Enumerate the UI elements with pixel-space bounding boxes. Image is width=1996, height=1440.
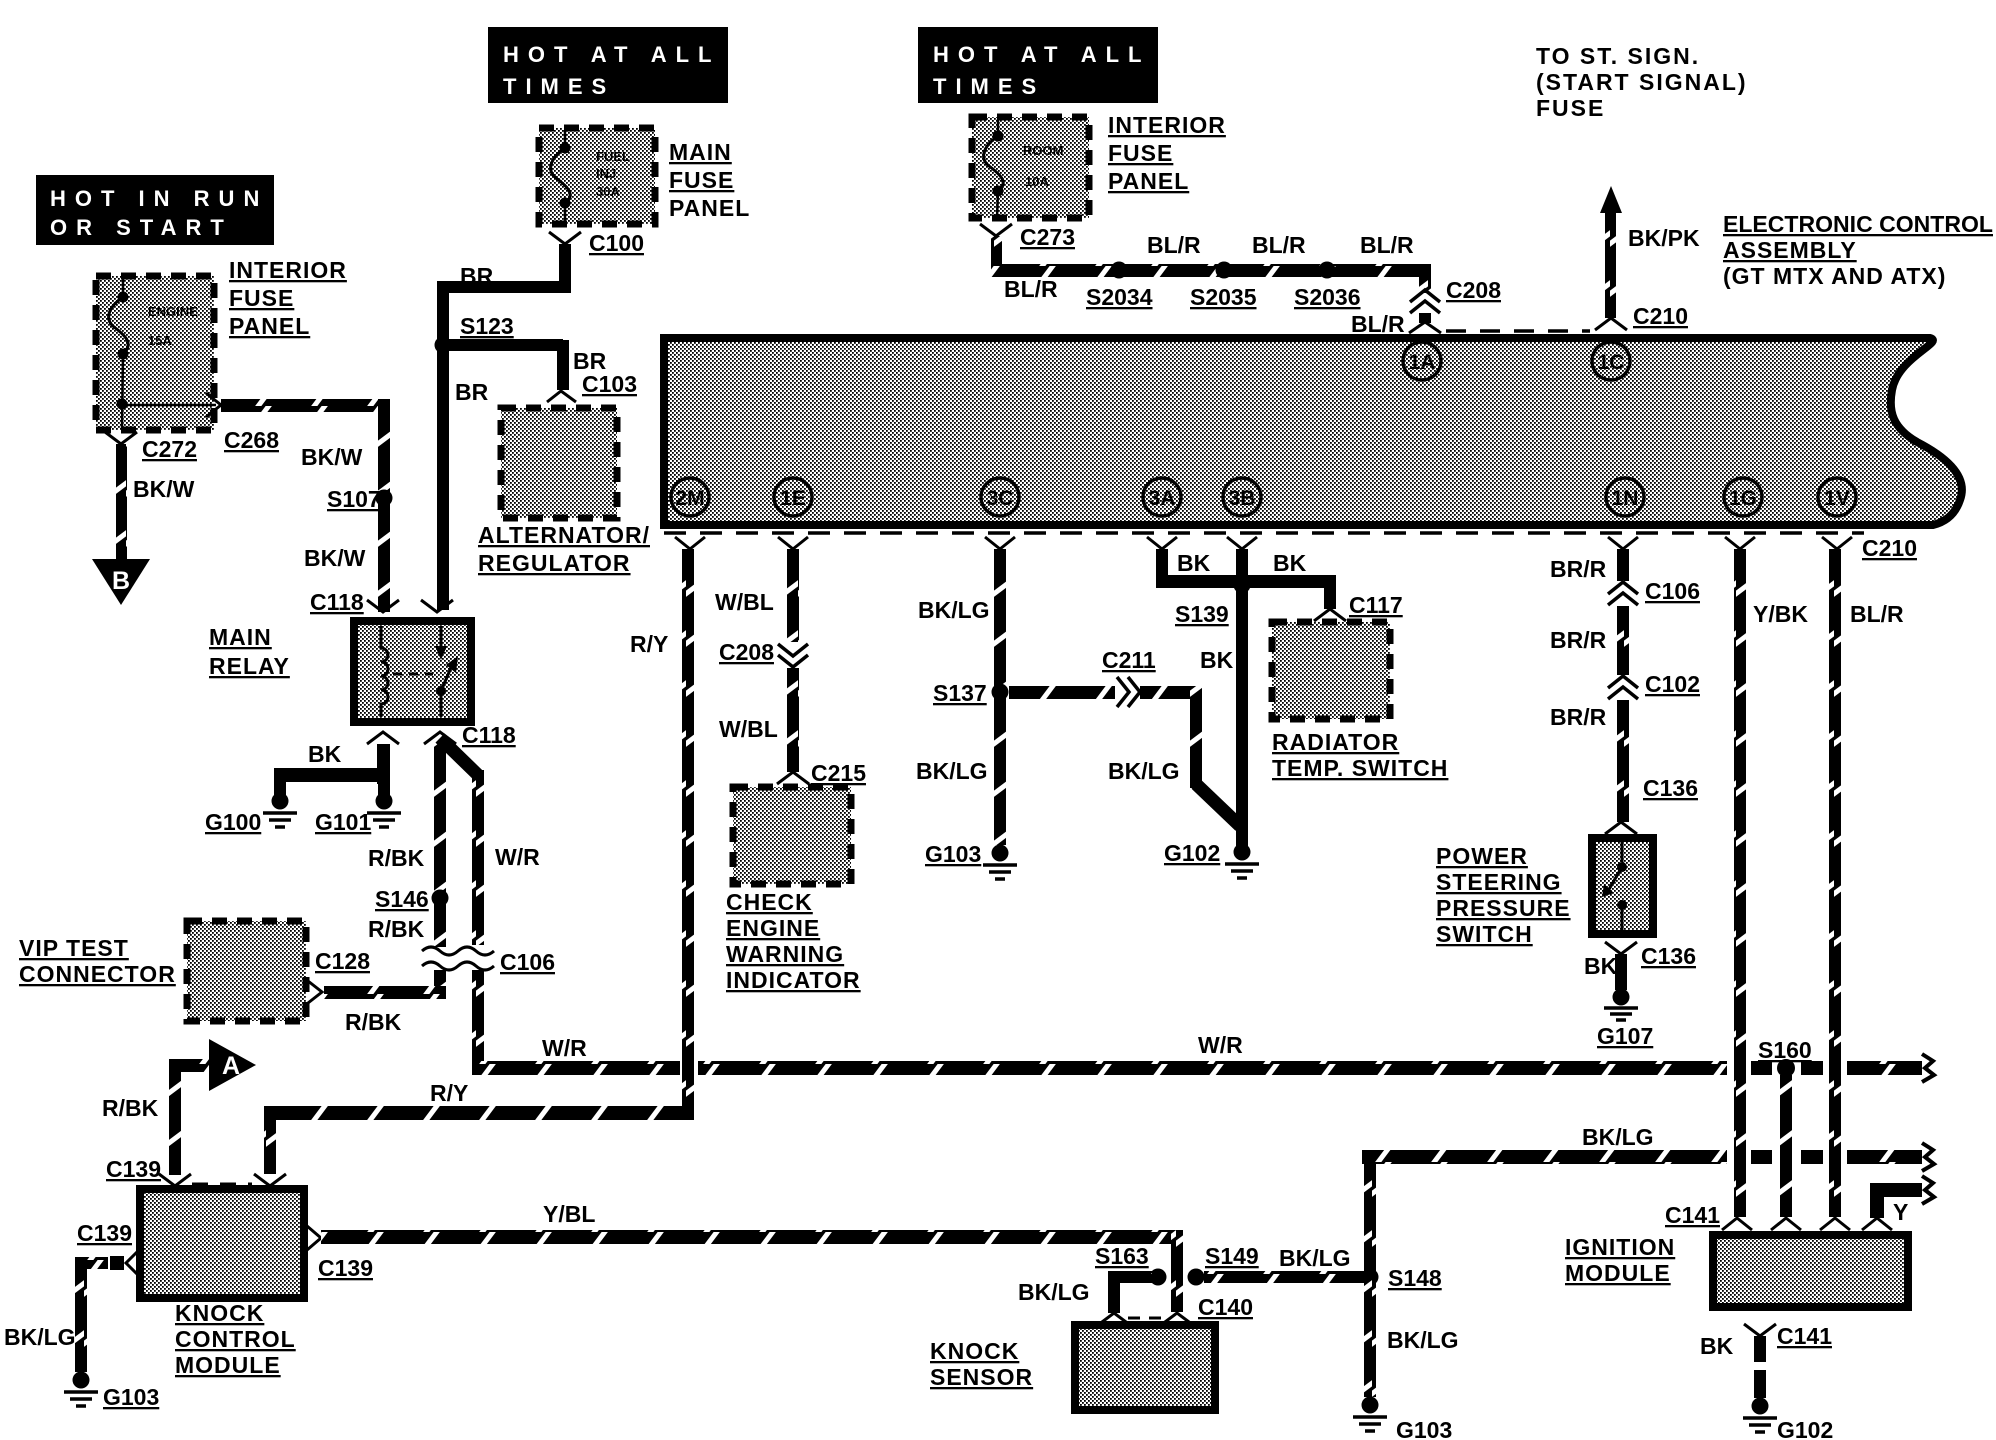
svg-text:S160: S160 bbox=[1758, 1037, 1812, 1063]
svg-text:3B: 3B bbox=[1229, 487, 1256, 510]
label POWER STEERING PRESSURE SWITCH bbox=[1436, 843, 1571, 947]
wire R/Y from 2M down bbox=[682, 549, 694, 1106]
wire BL/R corner down to C208 bbox=[1419, 264, 1431, 293]
svg-text:FUSE: FUSE bbox=[669, 167, 734, 193]
svg-text:30A: 30A bbox=[596, 184, 620, 199]
svg-text:BK: BK bbox=[1273, 550, 1307, 576]
svg-text:A: A bbox=[222, 1052, 240, 1080]
ECA pin circle 2M bbox=[671, 478, 709, 516]
svg-text:C106: C106 bbox=[500, 949, 555, 975]
label BK (ignition) bbox=[1700, 1333, 1734, 1359]
label ELECTRONIC CONTROL ASSEMBLY bbox=[1723, 211, 1993, 289]
wire W/R long horizontal bbox=[472, 1061, 1922, 1075]
svg-text:B: B bbox=[112, 567, 130, 595]
svg-text:KNOCK: KNOCK bbox=[175, 1300, 264, 1326]
label TO ST. SIGN. (START SIGNAL) FUSE bbox=[1536, 43, 1748, 121]
inline connector C208 (on W/BL) bbox=[719, 639, 808, 667]
connector V at ECA pin 1G bbox=[1725, 537, 1755, 549]
radiator temp switch dashed box bbox=[1272, 622, 1390, 719]
inline connector C106 (wavy break on both wires) bbox=[422, 947, 555, 975]
label Y bbox=[1893, 1199, 1908, 1225]
label BK (3A) bbox=[1177, 550, 1211, 576]
label BK/LG (mid left) bbox=[916, 758, 988, 784]
svg-text:MODULE: MODULE bbox=[1565, 1260, 1671, 1286]
svg-text:BL/R: BL/R bbox=[1252, 232, 1306, 258]
svg-text:C118: C118 bbox=[310, 589, 364, 615]
connector V at ECA pin 3A bbox=[1147, 537, 1177, 549]
ECA pin circle 1A bbox=[1403, 342, 1441, 380]
check engine warning indicator dashed box bbox=[733, 787, 851, 884]
svg-text:BR/R: BR/R bbox=[1550, 556, 1607, 582]
knock control module box bbox=[140, 1189, 304, 1298]
svg-text:INDICATOR: INDICATOR bbox=[726, 967, 861, 993]
label BL/R (1) bbox=[1147, 232, 1201, 258]
svg-text:W/R: W/R bbox=[542, 1035, 587, 1061]
svg-text:C215: C215 bbox=[811, 760, 866, 786]
wire BK/LG elbow to G103 (left) bbox=[75, 1257, 108, 1372]
ECA pin circle 3B bbox=[1223, 478, 1261, 516]
svg-text:ENGINE: ENGINE bbox=[726, 915, 820, 941]
ECA pin circle 1C bbox=[1592, 342, 1630, 380]
svg-text:C210: C210 bbox=[1862, 535, 1917, 561]
splice S2036 bbox=[1294, 262, 1361, 311]
svg-text:C140: C140 bbox=[1198, 1294, 1253, 1320]
svg-text:C100: C100 bbox=[589, 230, 644, 256]
svg-text:CONNECTOR: CONNECTOR bbox=[19, 961, 176, 987]
splice S107 bbox=[327, 486, 393, 512]
svg-text:INTERIOR: INTERIOR bbox=[229, 257, 347, 283]
label BR (right) bbox=[573, 348, 607, 374]
fuse FUEL INJ 30A symbol bbox=[551, 130, 630, 224]
main fuse panel dashed box bbox=[539, 128, 655, 224]
label KNOCK CONTROL MODULE bbox=[175, 1300, 296, 1378]
svg-text:HOT IN RUN: HOT IN RUN bbox=[50, 186, 268, 211]
label BK/LG (top) bbox=[918, 597, 990, 623]
label BK/LG (mid right) bbox=[1108, 758, 1180, 784]
continuation hook W/R right end bbox=[1922, 1054, 1934, 1082]
label BK/W bbox=[133, 476, 195, 502]
splice S149 bbox=[1188, 1243, 1259, 1286]
wire BK/LG corner down + diagonal to G102 wire bbox=[1190, 686, 1240, 826]
connector V at ECA pin 3B bbox=[1227, 537, 1257, 549]
pressure switch symbol bbox=[1602, 842, 1627, 930]
svg-text:1V: 1V bbox=[1824, 487, 1850, 510]
connector C140 (dashes and pins) bbox=[1098, 1294, 1253, 1325]
svg-text:W/R: W/R bbox=[1198, 1032, 1243, 1058]
label R/BK (below S146) bbox=[368, 916, 425, 942]
svg-text:C102: C102 bbox=[1645, 671, 1700, 697]
ground G103 (mid) bbox=[925, 841, 1017, 879]
ECA connector face dashed line C210 bottom bbox=[664, 531, 1864, 535]
svg-text:C139: C139 bbox=[106, 1156, 161, 1182]
svg-text:C128: C128 bbox=[315, 948, 370, 974]
splice S123 bbox=[435, 313, 514, 354]
relay top pin connectors C118 bbox=[367, 600, 453, 612]
svg-text:ALTERNATOR/: ALTERNATOR/ bbox=[478, 522, 650, 548]
svg-text:G107: G107 bbox=[1597, 1023, 1653, 1049]
svg-text:3C: 3C bbox=[987, 487, 1014, 510]
svg-text:BK: BK bbox=[1177, 550, 1211, 576]
svg-text:BK/LG: BK/LG bbox=[918, 597, 990, 623]
svg-text:G100: G100 bbox=[205, 809, 261, 835]
svg-text:G102: G102 bbox=[1164, 840, 1220, 866]
label BK/LG (right bus) bbox=[1582, 1124, 1654, 1150]
svg-text:SENSOR: SENSOR bbox=[930, 1364, 1033, 1390]
svg-text:BL/R: BL/R bbox=[1004, 276, 1058, 302]
off-page arrow A with stub bbox=[169, 1039, 256, 1091]
svg-text:R/BK: R/BK bbox=[368, 916, 425, 942]
label BK bbox=[308, 741, 342, 767]
svg-text:CONTROL: CONTROL bbox=[175, 1326, 296, 1352]
wire Y elbow with hook bbox=[1870, 1176, 1934, 1218]
off-page arrow BK/PK up bbox=[1595, 186, 1627, 330]
svg-text:OR START: OR START bbox=[50, 215, 233, 240]
svg-text:C210: C210 bbox=[1633, 303, 1688, 329]
svg-text:G103: G103 bbox=[1396, 1417, 1452, 1440]
svg-text:1N: 1N bbox=[1612, 487, 1639, 510]
label BL/R (right) bbox=[1850, 601, 1904, 627]
label BK (below S139) bbox=[1200, 647, 1234, 673]
ground G102 (bottom) bbox=[1743, 1398, 1833, 1440]
connector C272 bbox=[105, 432, 197, 462]
svg-text:INJ: INJ bbox=[596, 166, 616, 181]
svg-text:15A: 15A bbox=[148, 333, 172, 348]
svg-text:BL/R: BL/R bbox=[1147, 232, 1201, 258]
svg-text:C139: C139 bbox=[77, 1220, 132, 1246]
svg-text:MODULE: MODULE bbox=[175, 1352, 281, 1378]
label Y/BL bbox=[543, 1201, 595, 1227]
svg-text:BK/LG: BK/LG bbox=[1108, 758, 1180, 784]
wire R/Y horizontal and down to module bbox=[264, 1106, 694, 1174]
wire BK/LG 3C down to G103 bbox=[994, 549, 1006, 845]
connector C100 bbox=[549, 230, 644, 256]
svg-text:10A: 10A bbox=[1025, 174, 1049, 189]
svg-text:S149: S149 bbox=[1205, 1243, 1259, 1269]
label BK/LG (below S148) bbox=[1387, 1327, 1459, 1353]
svg-text:BK/LG: BK/LG bbox=[4, 1324, 76, 1350]
svg-text:3A: 3A bbox=[1149, 487, 1176, 510]
connector C215 bbox=[777, 760, 866, 786]
alternator/regulator dashed box bbox=[501, 408, 617, 518]
svg-text:BL/R: BL/R bbox=[1360, 232, 1414, 258]
label BR/R (1) bbox=[1550, 556, 1607, 582]
connector V at ECA pin 1V with label C210 bbox=[1822, 535, 1917, 561]
label BK/W (upper segment) bbox=[301, 444, 363, 470]
splice S2035 bbox=[1190, 262, 1257, 311]
svg-text:BR/R: BR/R bbox=[1550, 627, 1607, 653]
wire BR S123 down to relay (solid) bbox=[437, 345, 449, 610]
splice S163 bbox=[1095, 1243, 1167, 1286]
svg-text:S163: S163 bbox=[1095, 1243, 1149, 1269]
svg-text:FUSE: FUSE bbox=[229, 285, 294, 311]
knock sensor box bbox=[1075, 1325, 1215, 1410]
label BR/R (2) bbox=[1550, 627, 1607, 653]
svg-text:BK/LG: BK/LG bbox=[1387, 1327, 1459, 1353]
svg-text:C106: C106 bbox=[1645, 578, 1700, 604]
wire BR/R 1N down to C106 bbox=[1617, 549, 1629, 581]
wire 3A (solid elbow to S139) bbox=[1156, 549, 1242, 588]
splice S137 bbox=[933, 680, 1009, 706]
label RADIATOR TEMP. SWITCH bbox=[1272, 729, 1448, 781]
ground G101 bbox=[315, 793, 401, 836]
connectors C141 at ignition module top bbox=[1665, 1202, 1892, 1230]
svg-text:ASSEMBLY: ASSEMBLY bbox=[1723, 237, 1857, 263]
label R/BK (bottom left) bbox=[102, 1095, 159, 1121]
svg-text:1G: 1G bbox=[1729, 487, 1757, 510]
connector C139 (module left) bbox=[77, 1220, 140, 1277]
dashed wire to C210 bbox=[1446, 329, 1590, 333]
label INTERIOR FUSE PANEL (left) bbox=[229, 257, 347, 339]
label BR (left lower) bbox=[455, 379, 489, 405]
svg-text:ENGINE: ENGINE bbox=[148, 304, 198, 319]
wire W/BL C208 to C215 bbox=[787, 668, 799, 772]
connector C139 (left pin) bbox=[106, 1156, 191, 1186]
continuation hook BK/LG right end bbox=[1922, 1143, 1934, 1171]
power steering pressure switch box bbox=[1592, 838, 1653, 934]
label R/Y (top) bbox=[630, 631, 668, 657]
svg-text:ROOM: ROOM bbox=[1023, 143, 1063, 158]
svg-text:R/BK: R/BK bbox=[345, 1009, 402, 1035]
label BK (3B) bbox=[1273, 550, 1307, 576]
label BK/LG (S149-S148) bbox=[1279, 1245, 1351, 1271]
wire BK/LG S148 to G103 bbox=[1364, 1277, 1376, 1397]
svg-text:VIP TEST: VIP TEST bbox=[19, 935, 129, 961]
svg-text:G101: G101 bbox=[315, 809, 371, 835]
svg-text:PANEL: PANEL bbox=[1108, 168, 1189, 194]
connector V at ECA pin 2M bbox=[675, 537, 705, 549]
svg-text:BK: BK bbox=[1200, 647, 1234, 673]
off-page arrow B bbox=[92, 559, 150, 605]
svg-text:RADIATOR: RADIATOR bbox=[1272, 729, 1399, 755]
svg-text:STEERING: STEERING bbox=[1436, 869, 1562, 895]
svg-text:BR: BR bbox=[460, 263, 494, 289]
svg-text:C208: C208 bbox=[719, 639, 774, 665]
label R/Y (horizontal) bbox=[430, 1080, 468, 1106]
connector C117 bbox=[1314, 592, 1403, 621]
svg-text:C141: C141 bbox=[1777, 1323, 1832, 1349]
svg-text:(GT MTX AND ATX): (GT MTX AND ATX) bbox=[1723, 263, 1946, 289]
connector V into pressure switch bbox=[1605, 822, 1637, 834]
ground G103 (bottom left) bbox=[64, 1372, 159, 1411]
svg-text:W/BL: W/BL bbox=[719, 716, 778, 742]
svg-text:FUSE: FUSE bbox=[1536, 95, 1605, 121]
ground G107 bbox=[1597, 989, 1653, 1050]
svg-text:FUSE: FUSE bbox=[1108, 140, 1173, 166]
label MAIN RELAY bbox=[209, 624, 290, 679]
svg-text:C136: C136 bbox=[1643, 775, 1698, 801]
connector V at dashed line (BL/R) bbox=[1409, 322, 1441, 333]
svg-text:C268: C268 bbox=[224, 427, 279, 453]
label MAIN FUSE PANEL bbox=[669, 139, 750, 221]
label BK/PK bbox=[1628, 225, 1700, 251]
wire BK/W from C272 down bbox=[116, 444, 127, 560]
title banner HOT IN RUN OR START bbox=[36, 175, 274, 245]
wire BK switch to G107 (solid) bbox=[1615, 954, 1627, 990]
svg-text:KNOCK: KNOCK bbox=[930, 1338, 1019, 1364]
svg-text:G103: G103 bbox=[103, 1384, 159, 1410]
svg-text:S137: S137 bbox=[933, 680, 987, 706]
svg-text:R/Y: R/Y bbox=[430, 1080, 468, 1106]
wire BL/R stub below C208 bbox=[1419, 313, 1431, 323]
wire W/BL 1E down to C208 bbox=[787, 549, 799, 642]
svg-text:RELAY: RELAY bbox=[209, 653, 290, 679]
svg-text:C118: C118 bbox=[462, 722, 516, 748]
ECA pin circle 1N bbox=[1606, 478, 1644, 516]
wire BK/LG S163 elbow to C140 bbox=[1108, 1271, 1152, 1313]
svg-text:S2034: S2034 bbox=[1086, 284, 1153, 310]
svg-text:BK/LG: BK/LG bbox=[1279, 1245, 1351, 1271]
svg-text:G102: G102 bbox=[1777, 1417, 1833, 1440]
ECA pin circle 1E bbox=[774, 478, 812, 516]
label BK/LG (far left) bbox=[4, 1324, 76, 1350]
svg-text:REGULATOR: REGULATOR bbox=[478, 550, 631, 576]
svg-text:BK/PK: BK/PK bbox=[1628, 225, 1700, 251]
svg-text:PANEL: PANEL bbox=[229, 313, 310, 339]
inline connector C208 (chevrons) bbox=[1410, 277, 1501, 313]
svg-text:INTERIOR: INTERIOR bbox=[1108, 112, 1226, 138]
svg-text:BK/W: BK/W bbox=[301, 444, 363, 470]
svg-text:MAIN: MAIN bbox=[209, 624, 272, 650]
svg-text:TEMP. SWITCH: TEMP. SWITCH bbox=[1272, 755, 1448, 781]
svg-text:TIMES: TIMES bbox=[503, 74, 615, 99]
svg-text:G103: G103 bbox=[925, 841, 981, 867]
svg-text:CHECK: CHECK bbox=[726, 889, 813, 915]
connector V at ECA pin 1N bbox=[1608, 537, 1638, 549]
wire BR C100 to S123 (solid) bbox=[443, 244, 565, 340]
svg-text:BK: BK bbox=[308, 741, 342, 767]
label R/BK (upper) bbox=[368, 845, 425, 871]
svg-text:TO ST. SIGN.: TO ST. SIGN. bbox=[1536, 43, 1700, 69]
svg-text:R/BK: R/BK bbox=[102, 1095, 159, 1121]
svg-text:S139: S139 bbox=[1175, 601, 1229, 627]
connector C273 bbox=[980, 224, 1075, 250]
svg-text:S123: S123 bbox=[460, 313, 514, 339]
svg-text:BK/LG: BK/LG bbox=[1582, 1124, 1654, 1150]
svg-text:1A: 1A bbox=[1409, 351, 1436, 374]
svg-text:BK/W: BK/W bbox=[133, 476, 195, 502]
svg-text:BR: BR bbox=[455, 379, 489, 405]
svg-text:PRESSURE: PRESSURE bbox=[1436, 895, 1571, 921]
wire BR/R C106 to C102 bbox=[1617, 606, 1629, 675]
svg-text:2M: 2M bbox=[675, 487, 704, 510]
ECA pin circle 1G bbox=[1724, 478, 1762, 516]
label ALTERNATOR/REGULATOR bbox=[478, 522, 650, 576]
label BL/R below left bbox=[1004, 276, 1058, 302]
label CHECK ENGINE WARNING INDICATOR bbox=[726, 889, 861, 993]
wire BK/LG horizontal bus bbox=[1362, 1150, 1922, 1164]
svg-text:C211: C211 bbox=[1102, 647, 1156, 673]
svg-text:WARNING: WARNING bbox=[726, 941, 844, 967]
title banner HOT AT ALL TIMES (right) bbox=[918, 27, 1158, 103]
label W/R (left) bbox=[542, 1035, 587, 1061]
label W/BL (upper) bbox=[715, 589, 774, 615]
svg-text:TIMES: TIMES bbox=[933, 74, 1045, 99]
label BK (pressure switch) bbox=[1584, 953, 1618, 979]
wire BK/LG S137 to C211 to corner bbox=[1009, 686, 1202, 699]
svg-text:MAIN: MAIN bbox=[669, 139, 732, 165]
label R/BK (at VIP) bbox=[345, 1009, 402, 1035]
wire BK S139 to C117 bbox=[1248, 575, 1336, 609]
wire W/R relay diagonal then down bbox=[440, 738, 484, 945]
label BL/R (3) bbox=[1360, 232, 1414, 258]
ECA pin circle 3A bbox=[1143, 478, 1181, 516]
wire BK/LG down to S148 bbox=[1364, 1164, 1376, 1278]
title banner HOT AT ALL TIMES (left) bbox=[488, 27, 728, 103]
connector C141 (bottom) bbox=[1744, 1323, 1832, 1349]
wire BL/R 1V down to ignition module bbox=[1829, 549, 1841, 1217]
main relay K1 box bbox=[354, 621, 471, 722]
label W/BL (lower) bbox=[719, 716, 778, 742]
ground G102 (mid) bbox=[1164, 840, 1259, 878]
label BL/R (2) bbox=[1252, 232, 1306, 258]
VIP test connector dashed box bbox=[187, 921, 306, 1021]
svg-text:C141: C141 bbox=[1665, 1202, 1720, 1228]
svg-text:BK: BK bbox=[1584, 953, 1618, 979]
connector C210 (top) bbox=[1633, 303, 1688, 329]
svg-text:1C: 1C bbox=[1598, 351, 1625, 374]
svg-text:C139: C139 bbox=[318, 1255, 373, 1281]
inline connector C102 bbox=[1608, 671, 1700, 699]
svg-text:C273: C273 bbox=[1020, 224, 1075, 250]
connector V at ECA pin 3C bbox=[985, 537, 1015, 549]
wire BK/LG S149 to S148 bbox=[1204, 1271, 1370, 1283]
wire BK/W C268 to relay (right then down) bbox=[221, 399, 390, 612]
wire R/BK arrow stub down to C139 bbox=[169, 1059, 181, 1175]
svg-text:S107: S107 bbox=[327, 486, 381, 512]
connector C103 bbox=[547, 371, 637, 402]
wire BK 3B down to G102 (solid) bbox=[1236, 549, 1248, 850]
svg-text:POWER: POWER bbox=[1436, 843, 1528, 869]
inline connector C106 (on BR/R) bbox=[1608, 578, 1700, 605]
connector V at ECA pin 1E bbox=[778, 537, 808, 549]
splice S139 bbox=[1175, 577, 1251, 628]
wire BR S123 to C103 (solid) bbox=[449, 340, 563, 390]
svg-text:S2036: S2036 bbox=[1294, 284, 1361, 310]
wire BK ignition to G102 (solid segments) bbox=[1754, 1336, 1766, 1398]
svg-text:BL/R: BL/R bbox=[1850, 601, 1904, 627]
svg-text:IGNITION: IGNITION bbox=[1565, 1234, 1675, 1260]
wire BL/R C273 down then right to corner bbox=[991, 236, 1430, 277]
ignition module box bbox=[1713, 1235, 1908, 1307]
svg-text:BK/LG: BK/LG bbox=[916, 758, 988, 784]
svg-text:ELECTRONIC CONTROL: ELECTRONIC CONTROL bbox=[1723, 211, 1993, 237]
fuse ENGINE 15A symbol bbox=[109, 278, 199, 428]
wire R/BK S146 to break bbox=[434, 898, 446, 947]
label VIP TEST CONNECTOR bbox=[19, 935, 176, 987]
wire BK relay to grounds (solid) bbox=[274, 744, 390, 798]
svg-text:C208: C208 bbox=[1446, 277, 1501, 303]
inline connector C211 (chevrons right) bbox=[1102, 647, 1156, 707]
svg-text:Y/BK: Y/BK bbox=[1753, 601, 1808, 627]
svg-text:C103: C103 bbox=[582, 371, 637, 397]
svg-text:(START SIGNAL): (START SIGNAL) bbox=[1536, 69, 1748, 95]
splice S160 bbox=[1758, 1037, 1812, 1077]
svg-text:HOT AT ALL: HOT AT ALL bbox=[933, 42, 1151, 67]
wire Y/BL module to corner bbox=[321, 1230, 1183, 1312]
connector C118 (top label) bbox=[310, 589, 364, 615]
label IGNITION MODULE bbox=[1565, 1234, 1675, 1286]
interior fuse panel (left) dashed box bbox=[96, 276, 214, 430]
svg-text:SWITCH: SWITCH bbox=[1436, 921, 1533, 947]
svg-text:Y/BL: Y/BL bbox=[543, 1201, 595, 1227]
svg-text:PANEL: PANEL bbox=[669, 195, 750, 221]
electronic control assembly U1 (ECA body) bbox=[664, 338, 1962, 525]
splice S148 bbox=[1362, 1265, 1442, 1291]
svg-text:BK/LG: BK/LG bbox=[1018, 1279, 1090, 1305]
fuse ROOM 10A symbol bbox=[984, 119, 1064, 218]
svg-text:HOT AT ALL: HOT AT ALL bbox=[503, 42, 721, 67]
splice S2034 bbox=[1086, 262, 1153, 311]
